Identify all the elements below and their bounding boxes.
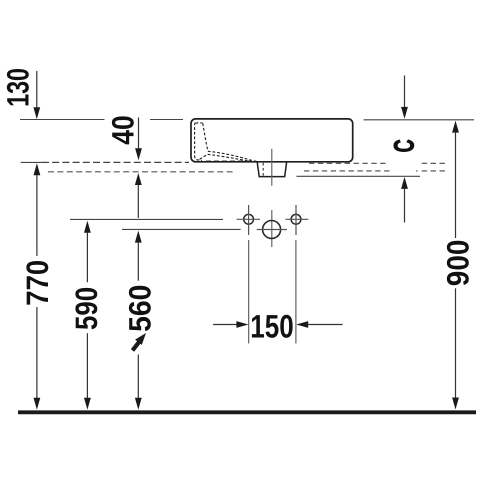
dimension 590 upper shaft xyxy=(86,233,88,283)
svg-text:770: 770 xyxy=(20,260,55,306)
basin interior hidden bowl: top rim curve xyxy=(196,122,203,124)
mid arrow up to hidden line (x=138) xyxy=(135,173,142,185)
view direction arrow xyxy=(133,333,147,350)
dimension 560 upper shaft xyxy=(137,243,139,281)
extension line from right hole to 150 dim xyxy=(295,240,297,344)
basin interior hidden bowl: left wall xyxy=(195,123,202,161)
drain connection reference line (560 level) xyxy=(122,228,241,230)
dimension 40 arrow down xyxy=(135,148,142,160)
dimension 130 arrow down xyxy=(33,107,40,119)
extension line from left hole to 150 dim xyxy=(248,240,250,344)
supply hole left circle xyxy=(244,214,254,224)
dimension C top arrow down xyxy=(401,107,408,119)
svg-text:150: 150 xyxy=(250,308,293,344)
dimension 560 arrow up xyxy=(135,231,142,243)
inner-bottom hidden dashed line lower right xyxy=(309,162,446,164)
dimension 590 arrow up xyxy=(84,221,91,233)
drain bottom reference line xyxy=(297,175,421,177)
svg-text:40: 40 xyxy=(105,115,140,144)
svg-text:C: C xyxy=(388,139,419,152)
lower hidden dashed line right xyxy=(304,170,445,172)
svg-text:560: 560 xyxy=(123,285,158,332)
supply hole left crosshair xyxy=(237,205,260,235)
basin interior hidden bowl: steep slope xyxy=(203,123,208,151)
dimension 130 line xyxy=(36,71,38,108)
drain hole circle xyxy=(263,221,281,239)
dimension C top shaft xyxy=(404,76,406,108)
basin bottom hidden dashed line left xyxy=(42,161,189,163)
dimension 770 lower shaft xyxy=(36,307,38,398)
dimension C bottom shaft xyxy=(404,189,406,223)
svg-text:130: 130 xyxy=(0,68,35,107)
dimension 900 lower shaft xyxy=(455,288,457,398)
dimension 150 left arrow right xyxy=(236,321,248,328)
drain outlet xyxy=(257,162,286,176)
basin interior hidden bowl: corner diagonal xyxy=(200,155,207,159)
dimension 900 upper shaft xyxy=(455,133,457,238)
dimension 590 lower shaft xyxy=(86,333,88,398)
dimension 770 arrow down xyxy=(34,398,41,410)
dimension 770 upper shaft xyxy=(36,175,38,256)
basin interior hidden bowl: upper slope to drain xyxy=(208,151,257,162)
drain hole horizontal tick xyxy=(257,229,287,231)
dimension 150 right arrow left xyxy=(296,321,308,328)
basin interior hidden bowl: lower slope xyxy=(208,154,250,161)
dimension 900 arrow up xyxy=(452,121,459,133)
dimension 590 arrow down xyxy=(84,398,91,410)
dimension 770 arrow up xyxy=(34,163,41,175)
basin bottom extension line left xyxy=(21,161,42,163)
drain hidden dashed vertical xyxy=(262,163,264,177)
drain centerline xyxy=(271,149,273,247)
top reference line right segment xyxy=(364,119,475,121)
floor line xyxy=(18,410,476,414)
svg-text:900: 900 xyxy=(440,240,475,287)
supply hole right circle xyxy=(291,214,301,224)
dimension 560 lower shaft xyxy=(137,355,139,399)
supply hole right crosshair xyxy=(285,205,308,235)
dimension 900 arrow down xyxy=(452,398,459,410)
svg-text:590: 590 xyxy=(69,287,104,330)
top reference line left segment xyxy=(20,119,183,121)
supply connections reference line (590 level) xyxy=(70,218,223,220)
dimension 150 right line xyxy=(308,324,343,326)
basin outline xyxy=(191,119,353,162)
dimension 40 line xyxy=(138,118,140,149)
inner-bottom dashes left of drain xyxy=(206,160,256,162)
lower hidden dashed line left xyxy=(48,171,236,173)
mid arrow shaft xyxy=(137,185,139,218)
dimension 560 arrow down xyxy=(135,398,142,410)
dimension C bottom arrow up xyxy=(401,177,408,189)
dimension 150 left line xyxy=(213,324,237,326)
